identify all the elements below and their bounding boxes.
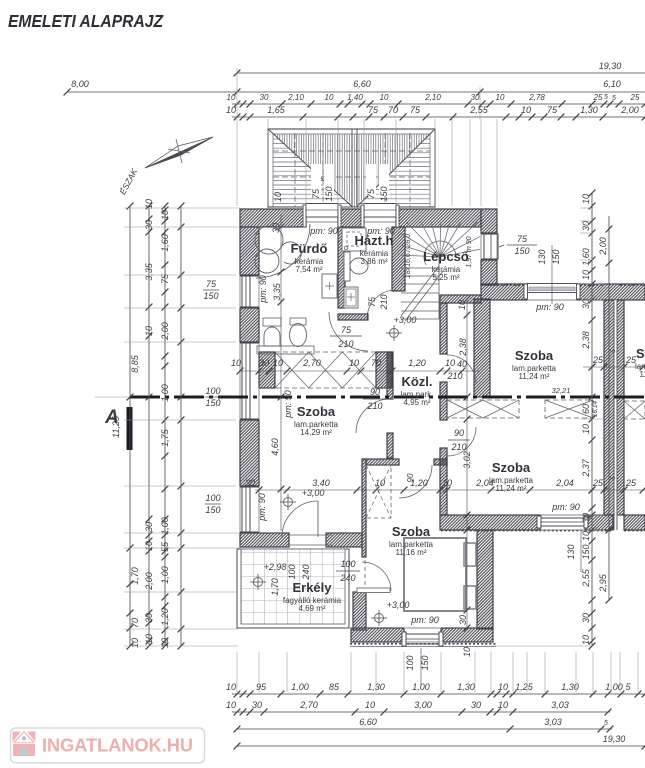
svg-text:1,00: 1,00 — [160, 566, 170, 584]
svg-text:1,00: 1,00 — [291, 682, 309, 692]
svg-text:2,70: 2,70 — [302, 358, 321, 368]
svg-text:210: 210 — [379, 294, 389, 310]
svg-text:8,85: 8,85 — [130, 354, 140, 373]
svg-text:5,25 m²: 5,25 m² — [432, 273, 459, 282]
svg-text:30: 30 — [458, 615, 468, 625]
svg-text:10: 10 — [349, 358, 359, 368]
svg-text:1,20: 1,20 — [410, 478, 428, 488]
svg-text:10: 10 — [498, 700, 508, 710]
svg-text:pm: 90: pm: 90 — [309, 226, 338, 236]
svg-text:10: 10 — [144, 541, 154, 551]
svg-text:2,70: 2,70 — [299, 700, 318, 710]
svg-text:pm: 90: pm: 90 — [410, 615, 439, 625]
svg-text:+3,00: +3,00 — [387, 600, 410, 610]
svg-text:10: 10 — [581, 270, 591, 280]
svg-text:6,60: 6,60 — [359, 717, 377, 727]
svg-text:30: 30 — [581, 221, 591, 231]
svg-text:2,00: 2,00 — [144, 572, 154, 591]
svg-text:4,69 m²: 4,69 m² — [298, 604, 325, 613]
svg-text:pm: 90: pm: 90 — [551, 502, 580, 512]
svg-text:75: 75 — [368, 105, 379, 115]
svg-text:1,75: 1,75 — [160, 428, 170, 447]
svg-text:2,04: 2,04 — [555, 478, 574, 488]
svg-text:10: 10 — [144, 199, 154, 209]
svg-text:Szoba: Szoba — [492, 460, 531, 475]
svg-text:30: 30 — [259, 358, 269, 368]
svg-text:10: 10 — [226, 682, 236, 692]
svg-text:30: 30 — [245, 478, 255, 488]
svg-text:30: 30 — [581, 613, 591, 623]
svg-text:90: 90 — [370, 387, 380, 397]
svg-text:150: 150 — [203, 291, 218, 301]
svg-text:Szoba: Szoba — [392, 524, 431, 539]
svg-text:pm: 90: pm: 90 — [535, 302, 564, 312]
svg-text:Szoba: Szoba — [297, 404, 336, 419]
svg-text:1,25: 1,25 — [515, 682, 534, 692]
svg-text:1,60: 1,60 — [160, 234, 170, 252]
svg-text:150: 150 — [514, 246, 529, 256]
svg-text:130: 130 — [566, 544, 576, 559]
svg-text:5: 5 — [604, 94, 608, 101]
svg-text:95: 95 — [256, 682, 267, 692]
svg-text:10: 10 — [144, 326, 154, 336]
svg-text:100: 100 — [205, 386, 220, 396]
svg-text:3,35: 3,35 — [272, 282, 282, 301]
svg-text:2,10: 2,10 — [424, 93, 441, 102]
svg-text:3,03: 3,03 — [551, 700, 569, 710]
svg-text:10: 10 — [496, 93, 505, 102]
svg-text:25: 25 — [592, 478, 604, 488]
svg-text:90: 90 — [454, 428, 464, 438]
svg-text:11,16 m²: 11,16 m² — [396, 548, 427, 557]
svg-text:2,10: 2,10 — [287, 93, 304, 102]
svg-text:150: 150 — [420, 655, 430, 670]
svg-text:pm: 90: pm: 90 — [258, 275, 268, 304]
svg-text:70: 70 — [371, 358, 381, 368]
svg-text:10: 10 — [445, 358, 455, 368]
svg-text:7,54 m²: 7,54 m² — [295, 265, 322, 274]
svg-text:10: 10 — [380, 93, 389, 102]
svg-text:11,24 m²: 11,24 m² — [640, 370, 645, 379]
svg-text:75: 75 — [547, 105, 558, 115]
svg-text:130: 130 — [537, 249, 547, 264]
svg-text:75: 75 — [517, 234, 528, 244]
svg-text:2,00: 2,00 — [620, 105, 639, 115]
svg-text:10: 10 — [144, 634, 154, 644]
svg-text:3,40: 3,40 — [312, 478, 330, 488]
svg-text:1,30: 1,30 — [580, 105, 598, 115]
svg-text:25: 25 — [593, 93, 603, 102]
svg-text:Szoba: Szoba — [636, 346, 645, 361]
svg-text:30: 30 — [144, 613, 154, 623]
svg-text:10: 10 — [273, 358, 283, 368]
svg-text:10: 10 — [160, 210, 170, 220]
svg-text:4,95 m²: 4,95 m² — [403, 398, 430, 407]
svg-text:210: 210 — [337, 339, 353, 349]
svg-text:10: 10 — [130, 638, 140, 648]
svg-text:+2,98: +2,98 — [264, 562, 287, 572]
svg-text:4,60: 4,60 — [270, 438, 280, 456]
svg-text:150: 150 — [324, 186, 334, 201]
svg-text:32,21: 32,21 — [552, 386, 571, 395]
svg-text:100: 100 — [205, 493, 220, 503]
svg-text:8,00: 8,00 — [71, 79, 89, 89]
svg-text:11,24 m²: 11,24 m² — [496, 484, 527, 493]
svg-text:10: 10 — [226, 700, 236, 710]
svg-text:10: 10 — [325, 93, 334, 102]
svg-text:+3,00: +3,00 — [302, 488, 325, 498]
svg-text:210: 210 — [450, 442, 466, 452]
svg-text:Lépcső: Lépcső — [423, 249, 469, 264]
svg-text:30: 30 — [144, 522, 154, 532]
svg-text:1,00: 1,00 — [160, 384, 170, 402]
svg-text:Erkély: Erkély — [292, 580, 332, 595]
svg-text:5: 5 — [610, 349, 617, 353]
svg-text:150: 150 — [581, 544, 591, 559]
svg-text:150: 150 — [205, 398, 220, 408]
svg-text:10: 10 — [227, 93, 236, 102]
svg-text:1,00: 1,00 — [412, 682, 430, 692]
svg-text:14,29 m²: 14,29 m² — [300, 428, 332, 437]
svg-text:18x16,67/28,0: 18x16,67/28,0 — [405, 234, 412, 278]
svg-text:INGATLANOK.HU: INGATLANOK.HU — [42, 735, 193, 756]
svg-text:60: 60 — [581, 404, 591, 414]
svg-text:3,35: 3,35 — [144, 262, 154, 281]
svg-text:10: 10 — [457, 300, 467, 310]
svg-text:2,95: 2,95 — [598, 573, 608, 593]
svg-text:2,78: 2,78 — [528, 93, 545, 102]
svg-text:100: 100 — [287, 564, 297, 579]
svg-text:100: 100 — [405, 655, 415, 670]
svg-text:30: 30 — [144, 220, 154, 230]
svg-text:25: 25 — [592, 355, 604, 365]
svg-text:30: 30 — [471, 700, 481, 710]
svg-text:150: 150 — [551, 249, 561, 264]
svg-text:2,38: 2,38 — [581, 331, 591, 350]
svg-text:75: 75 — [366, 188, 376, 199]
svg-text:10: 10 — [442, 478, 452, 488]
svg-text:25: 25 — [630, 93, 640, 102]
svg-text:30: 30 — [252, 700, 262, 710]
svg-text:75: 75 — [160, 273, 170, 284]
svg-text:2,00: 2,00 — [598, 237, 608, 256]
svg-text:75: 75 — [206, 279, 217, 289]
svg-text:240: 240 — [301, 564, 311, 580]
svg-text:10: 10 — [581, 424, 591, 434]
svg-text:5: 5 — [610, 476, 617, 480]
svg-text:75: 75 — [410, 105, 421, 115]
svg-text:19,30: 19,30 — [603, 734, 626, 744]
svg-text:6,60: 6,60 — [353, 79, 371, 89]
svg-text:2,55: 2,55 — [581, 568, 591, 588]
svg-text:2,04: 2,04 — [475, 478, 494, 488]
svg-text:150: 150 — [379, 186, 389, 201]
svg-text:pm: 90: pm: 90 — [366, 226, 395, 236]
svg-text:10: 10 — [365, 700, 375, 710]
svg-text:16,14: 16,14 — [592, 400, 599, 417]
svg-text:10: 10 — [273, 192, 283, 202]
svg-text:40: 40 — [457, 359, 467, 369]
svg-text:2,00: 2,00 — [160, 322, 170, 341]
svg-text:3,00: 3,00 — [414, 700, 432, 710]
svg-text:85: 85 — [329, 682, 340, 692]
svg-text:75: 75 — [311, 188, 321, 199]
svg-text:210: 210 — [366, 401, 382, 411]
svg-text:Közl.: Közl. — [401, 374, 432, 389]
svg-text:100: 100 — [340, 559, 355, 569]
svg-text:10: 10 — [231, 358, 241, 368]
svg-text:11,24 m²: 11,24 m² — [519, 372, 550, 381]
svg-text:3,03: 3,03 — [544, 717, 562, 727]
svg-text:pm: 90: pm: 90 — [257, 493, 267, 522]
svg-text:2,55: 2,55 — [469, 105, 489, 115]
svg-text:19,30: 19,30 — [599, 61, 622, 71]
svg-text:2,38: 2,38 — [458, 338, 468, 357]
svg-text:75: 75 — [367, 296, 377, 307]
svg-text:240: 240 — [339, 573, 355, 583]
svg-text:30: 30 — [260, 93, 269, 102]
svg-text:1,30: 1,30 — [457, 682, 475, 692]
svg-text:10: 10 — [226, 105, 236, 115]
svg-text:1,65: 1,65 — [267, 105, 286, 115]
svg-text:1,20: 1,20 — [408, 358, 426, 368]
svg-text:6,10: 6,10 — [603, 79, 621, 89]
svg-text:10: 10 — [498, 682, 508, 692]
svg-text:Fürdő: Fürdő — [291, 241, 328, 256]
svg-text:1,40: 1,40 — [347, 93, 363, 102]
svg-text:Szoba: Szoba — [515, 348, 554, 363]
svg-text:3,86 m²: 3,86 m² — [360, 257, 387, 266]
svg-text:pm: 90: pm: 90 — [283, 390, 293, 419]
svg-text:10: 10 — [375, 478, 385, 488]
svg-text:+3,00: +3,00 — [394, 315, 417, 325]
svg-text:75: 75 — [341, 325, 352, 335]
svg-text:70: 70 — [388, 105, 398, 115]
svg-text:EMELETI ALAPRAJZ: EMELETI ALAPRAJZ — [8, 11, 164, 31]
svg-text:150: 150 — [205, 505, 220, 515]
svg-text:30: 30 — [581, 299, 591, 309]
svg-text:10: 10 — [521, 105, 531, 115]
svg-text:1,70: 1,70 — [270, 578, 280, 596]
svg-text:30: 30 — [471, 93, 480, 102]
svg-text:1,20: 1,20 — [160, 608, 170, 626]
svg-text:10: 10 — [462, 647, 472, 657]
svg-text:2,37: 2,37 — [581, 458, 591, 478]
svg-text:11,25: 11,25 — [111, 415, 121, 438]
svg-text:3,02: 3,02 — [462, 451, 472, 469]
